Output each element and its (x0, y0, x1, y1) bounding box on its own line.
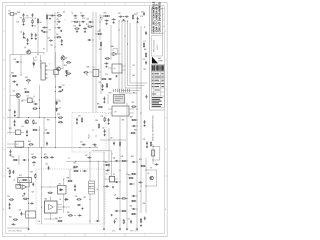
border zone ticks (3, 3, 168, 237)
junction (104, 161, 105, 162)
capacitor C50 (30, 202, 34, 204)
resistor R65 (131, 106, 136, 107)
transistor Q6 (150, 176, 154, 180)
ground (49, 18, 51, 20)
ground (102, 88, 104, 90)
wire (69, 169, 71, 181)
junction (55, 117, 56, 118)
svg-text:C50: C50 (127, 218, 130, 220)
capacitor C32 (46, 142, 48, 146)
bus wire 4 (128, 21, 145, 86)
capacitor C35 (46, 132, 50, 134)
ground (27, 228, 29, 230)
svg-text:C34: C34 (102, 127, 105, 129)
resistor R3 (37, 18, 38, 23)
capacitor C67 (130, 220, 132, 224)
junction (28, 147, 29, 148)
resistor R2 (32, 19, 33, 24)
capacitor C22 (108, 78, 112, 80)
svg-text:R20: R20 (144, 49, 147, 51)
feedback wire (113, 49, 118, 54)
title text box (151, 9, 162, 34)
svg-text:IN: IN (14, 180, 15, 182)
connector box J4 (41, 63, 48, 80)
resistor R51 (140, 165, 145, 166)
svg-text:U7: U7 (27, 96, 29, 98)
component box U4 (28, 98, 33, 103)
junction (123, 16, 124, 17)
resistor R29 (106, 83, 107, 88)
junction (10, 76, 11, 77)
svg-text:PS1: PS1 (109, 92, 112, 94)
svg-text:SHEET 1: SHEET 1 (157, 44, 159, 50)
capacitor C42 (132, 125, 136, 127)
capacitor C5 (31, 33, 33, 37)
approval cell signature (156, 65, 159, 71)
wire (7, 227, 29, 229)
junction (109, 16, 110, 17)
capacitor C1 (155, 164, 159, 166)
capacitor C17 (112, 18, 116, 20)
svg-text:C20: C20 (141, 11, 144, 13)
svg-text:C44: C44 (113, 158, 116, 160)
capacitor C4 (32, 13, 34, 17)
resistor R33 (130, 132, 135, 133)
resistor R52 (128, 177, 133, 178)
wire stub (79, 22, 81, 24)
junction (44, 117, 45, 118)
svg-text:C23: C23 (13, 59, 16, 61)
feedback wire 2 (27, 180, 30, 187)
wire net C (38, 85, 40, 118)
ground (9, 154, 11, 156)
capacitor C38 (93, 144, 97, 146)
junction (63, 207, 64, 208)
shield box SH1 (dashed) (72, 113, 106, 153)
junction (75, 215, 76, 216)
wire net D (55, 75, 57, 148)
wire rail mid (7, 117, 56, 119)
svg-text:D2: D2 (86, 74, 88, 76)
ground (14, 124, 16, 126)
junction (79, 21, 80, 22)
wire net K (119, 116, 121, 228)
capacitor C29 (14, 120, 16, 124)
table mid row entry (152, 90, 160, 94)
svg-text:C11: C11 (56, 19, 59, 21)
svg-text:Q2: Q2 (65, 57, 67, 59)
capacitor C62 (116, 197, 120, 199)
resistor R14 (145, 52, 146, 57)
svg-text:C19: C19 (140, 16, 143, 18)
junction (21, 75, 22, 76)
diode D5 (64, 198, 68, 200)
svg-text:R39: R39 (134, 130, 137, 132)
capacitor C27 (34, 103, 38, 105)
svg-text:B: B (165, 149, 166, 151)
wire (110, 151, 112, 177)
junction (55, 15, 56, 16)
wire (140, 150, 142, 213)
wire (31, 51, 44, 53)
wire rail 161 (66, 160, 120, 162)
junction (146, 170, 147, 171)
junction (127, 174, 128, 175)
inner border frame (6, 6, 165, 234)
junction (80, 171, 81, 172)
junction (125, 21, 126, 22)
resistor R41 (23, 198, 28, 199)
capacitor C47 (32, 161, 36, 163)
wire stub (71, 21, 73, 23)
component box U1 (152, 150, 155, 156)
capacitor C16 (87, 39, 91, 41)
ground (103, 228, 105, 230)
svg-text:C2: C2 (71, 13, 73, 15)
svg-text:R50: R50 (67, 212, 70, 214)
diode D3 (56, 108, 58, 112)
junction (127, 44, 128, 45)
junction (137, 126, 138, 127)
capacitor C11 (57, 27, 61, 29)
junction (38, 54, 39, 55)
outer border frame (3, 3, 168, 237)
wire net A2 (9, 85, 11, 120)
wire net GNDB (140, 26, 142, 150)
svg-text:R24: R24 (64, 65, 67, 67)
junction (103, 16, 104, 17)
junction (39, 117, 40, 118)
svg-text:C5: C5 (56, 24, 58, 26)
svg-text:C48: C48 (139, 191, 142, 193)
resistor R61 (100, 41, 101, 46)
junction (34, 165, 35, 166)
junction (90, 147, 91, 148)
op-amp block outline (18, 178, 32, 183)
svg-text:R19: R19 (99, 49, 102, 51)
ground (126, 228, 128, 230)
wire (110, 25, 112, 60)
wire (104, 178, 109, 180)
wire net F (108, 128, 110, 170)
svg-text:C41: C41 (85, 155, 88, 157)
wire net CLK (37, 18, 39, 55)
wire net E (43, 118, 45, 148)
revision table grid (151, 72, 164, 107)
junction (134, 184, 135, 185)
capacitor C57 (96, 220, 100, 222)
svg-text:R17: R17 (134, 14, 137, 16)
junction (119, 30, 120, 31)
capacitor C7 (42, 27, 46, 29)
capacitor C23 (145, 31, 147, 35)
ground (74, 189, 76, 191)
svg-text:R48: R48 (73, 168, 76, 170)
junction (41, 157, 42, 158)
wire (38, 126, 40, 148)
junction (137, 109, 138, 110)
wire net D+ (92, 12, 94, 113)
svg-text:B: B (3, 149, 4, 151)
resistor R13 (101, 78, 106, 79)
resistor R59 (87, 26, 92, 27)
svg-text:C21: C21 (143, 59, 146, 61)
capacitor C48 (12, 170, 14, 174)
junction (137, 196, 138, 197)
resistor R38 (9, 169, 10, 174)
wire net VCC1 (46, 13, 48, 52)
capacitor C8 (42, 31, 46, 33)
junction (137, 120, 138, 121)
junction (28, 117, 29, 118)
junction (55, 91, 56, 92)
company logo triangle (152, 57, 158, 64)
svg-text:R43: R43 (30, 172, 33, 174)
svg-text:R36: R36 (132, 75, 135, 77)
svg-text:C31: C31 (80, 142, 83, 144)
svg-text:R55: R55 (130, 206, 133, 208)
junction (41, 147, 42, 148)
resistor R39 (22, 179, 27, 180)
svg-text:R7: R7 (57, 12, 59, 14)
junction (28, 83, 29, 84)
junction (55, 27, 56, 28)
svg-text:K1: K1 (93, 67, 95, 69)
capacitor C37 (82, 144, 86, 146)
resistor R42 (13, 219, 18, 220)
junction (21, 147, 22, 148)
svg-text:C37: C37 (31, 154, 34, 156)
IC U9 (112, 106, 129, 116)
resistor R50 (121, 160, 126, 161)
wire (62, 60, 64, 69)
ground (61, 89, 63, 91)
ground (81, 207, 83, 209)
wire (153, 159, 160, 161)
capacitor C49 (9, 203, 11, 207)
wire net M (97, 161, 99, 221)
ground (23, 193, 25, 195)
capacitor C52 (50, 156, 54, 158)
resistor R11 (132, 14, 133, 19)
resistor R40 (9, 199, 14, 200)
wire op-amp in- (111, 54, 113, 56)
wire (60, 68, 63, 70)
junction (90, 187, 91, 188)
capacitor C81 (104, 129, 106, 133)
svg-text:L2: L2 (68, 158, 70, 160)
capacitor C45 (146, 141, 148, 145)
ground (76, 30, 78, 32)
svg-text:C18: C18 (118, 13, 121, 15)
wire pin (129, 112, 134, 114)
capacitor C3 (23, 32, 25, 36)
resistor R24 (66, 73, 71, 74)
junction (39, 130, 40, 131)
junction (90, 199, 91, 200)
capacitor C18 (119, 16, 123, 18)
ground (123, 19, 125, 21)
svg-text:R40: R40 (12, 157, 15, 159)
ground (22, 23, 24, 25)
junction (16, 13, 17, 14)
wire pin (122, 65, 126, 67)
ground (84, 31, 86, 33)
transistor Q2 (61, 56, 65, 60)
resistor R12 (105, 58, 110, 59)
junction (41, 187, 42, 188)
svg-text:R49: R49 (67, 178, 70, 180)
bus wire 2 (122, 21, 140, 91)
capacitor C58 (115, 160, 119, 162)
crystal Y1 (8, 13, 16, 16)
wire (115, 178, 119, 180)
wire (55, 52, 57, 70)
resistor R53 (121, 198, 126, 199)
title block side cells (163, 6, 165, 56)
wire (43, 52, 45, 54)
wire (10, 95, 16, 97)
svg-text:R37: R37 (132, 102, 135, 104)
ground (140, 224, 142, 226)
junction (55, 47, 56, 48)
junction (93, 130, 94, 131)
svg-text:Q4: Q4 (21, 126, 23, 128)
wire net D- (95, 12, 97, 113)
svg-text:R21: R21 (11, 73, 14, 75)
wire (56, 99, 61, 101)
ground (113, 21, 115, 23)
wire net P (100, 44, 102, 94)
svg-text:R38: R38 (130, 116, 133, 118)
wire (9, 120, 11, 135)
resistor R5 (57, 15, 62, 16)
wire net VBUS (152, 144, 154, 164)
svg-text:SHT 1 OF 2: SHT 1 OF 2 (130, 231, 138, 233)
resistor R46 (67, 180, 72, 181)
capacitor C56 (78, 214, 82, 216)
revision table entry (152, 86, 164, 88)
filter FL1 (15, 141, 24, 147)
relay K1 (93, 69, 99, 76)
junction (39, 100, 40, 101)
junction (125, 36, 126, 37)
junction (21, 62, 22, 63)
svg-text:TP1: TP1 (50, 45, 53, 47)
junction (137, 209, 138, 210)
junction (50, 219, 51, 220)
ground (65, 74, 67, 76)
junction (47, 27, 48, 28)
svg-text:X2: X2 (113, 174, 115, 176)
component box U6 (16, 184, 21, 188)
capacitor C40 (103, 97, 105, 101)
resistor R23 (28, 144, 33, 145)
wire (92, 150, 111, 152)
junction (141, 113, 142, 114)
wire op-amp in+ (111, 52, 113, 54)
junction (120, 211, 121, 212)
ground (60, 30, 62, 32)
hybrid module PS1 (113, 95, 125, 104)
junction (28, 203, 29, 204)
title block middle box (151, 36, 162, 56)
junction (90, 221, 91, 222)
svg-text:K1B: K1B (87, 66, 90, 68)
svg-text:C6: C6 (20, 31, 22, 33)
resistor R31 (104, 117, 105, 122)
svg-text:R4: R4 (39, 22, 41, 24)
svg-text:R3: R3 (26, 16, 28, 18)
svg-text:C29: C29 (78, 116, 81, 118)
junction (119, 21, 120, 22)
junction (93, 22, 94, 23)
resistor R62 (105, 164, 110, 165)
capacitor C59 (132, 161, 136, 163)
capacitor C31 (9, 150, 11, 154)
svg-text:U9B: U9B (121, 120, 124, 122)
wire main rail (7, 147, 98, 149)
wire net OSC (12, 15, 14, 55)
resistor R4 (46, 14, 47, 19)
svg-text:CIRCUIT DIAGRAM MOD: CIRCUIT DIAGRAM MOD (158, 2, 162, 33)
svg-text:U12: U12 (44, 198, 47, 200)
capacitor C24 (16, 61, 20, 63)
svg-text:R57: R57 (59, 218, 62, 220)
resistor R15 (12, 75, 17, 76)
resistor R8 (74, 28, 79, 29)
svg-text:R16: R16 (100, 18, 103, 20)
revision table entry (152, 82, 164, 84)
transistor Q3 (57, 67, 61, 71)
ground (23, 36, 25, 38)
transistor Q4 (16, 93, 20, 97)
svg-text:R33: R33 (47, 120, 50, 122)
capacitor C78 (138, 181, 142, 183)
wire (89, 71, 93, 73)
capacitor C13 (81, 21, 85, 23)
capacitor C69 (49, 40, 53, 42)
svg-text:VCO: VCO (89, 134, 91, 139)
resistor R45 (73, 170, 78, 171)
capacitor C39 (102, 84, 104, 88)
approval cell signature (161, 65, 164, 71)
ground (144, 124, 146, 126)
capacitor C54 (74, 184, 76, 188)
svg-text:Z1: Z1 (35, 57, 37, 59)
wire stub (136, 12, 138, 15)
junction (104, 165, 105, 166)
ground (41, 30, 43, 32)
wire collector (19, 99, 21, 118)
capacitor C6 (27, 38, 29, 42)
svg-text:R12: R12 (74, 18, 77, 20)
approval cell signature (152, 65, 155, 71)
junction (75, 161, 76, 162)
resistor R54 (131, 200, 136, 201)
resistor R28 (98, 123, 99, 128)
ground (9, 175, 11, 177)
wire stub (100, 15, 104, 17)
junction (120, 198, 121, 199)
ground (79, 24, 81, 26)
wire pin (108, 67, 112, 69)
resistor R58 (140, 218, 141, 223)
ground (146, 146, 148, 148)
junction (100, 30, 101, 31)
ground (105, 66, 107, 68)
ground (106, 23, 108, 25)
